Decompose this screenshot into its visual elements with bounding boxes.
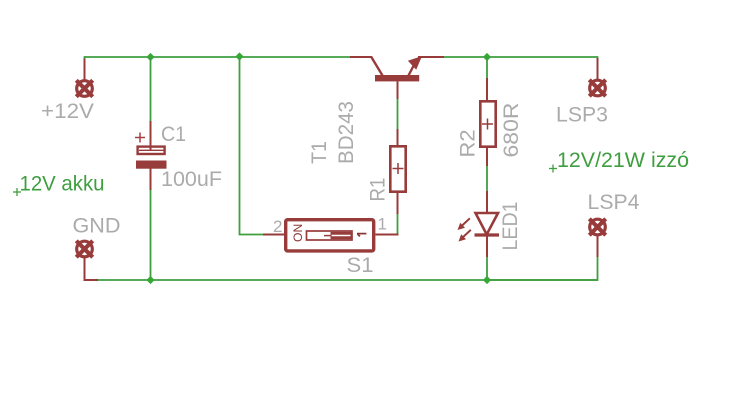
- switch S1 body: [286, 220, 374, 251]
- pin S1 pin1 stub: [376, 234, 399, 236]
- label 12V/21W izzo origin cross: [549, 165, 557, 173]
- svg-text:LSP3: LSP3: [556, 103, 608, 127]
- switch S1 actuator slot: [332, 235, 351, 237]
- capacitor C1 bottom plate: [136, 161, 167, 169]
- svg-text:GND: GND: [73, 214, 121, 238]
- svg-text:1: 1: [378, 215, 387, 234]
- svg-text:R1: R1: [366, 178, 390, 202]
- transistor T1 emitter pin: [418, 56, 444, 58]
- wire R2 to LED1: [486, 166, 488, 191]
- capacitor C1 plus mark: [135, 133, 145, 143]
- svg-text:BD243: BD243: [334, 101, 358, 164]
- wire LED1 to bottom rail: [486, 257, 488, 280]
- capacitor C1 top plate: [138, 147, 165, 154]
- solder pad LSP4: [589, 219, 605, 235]
- wire R2 top: [486, 57, 488, 78]
- origin cross R1: [393, 163, 404, 174]
- wire base to R1: [397, 99, 399, 129]
- node junction C1/bottom: [146, 276, 154, 284]
- wire top rail right (T1 emitter to LSP3 corner): [444, 57, 598, 59]
- wire bottom rail: [98, 279, 598, 281]
- LED1 triangle: [476, 213, 499, 235]
- svg-text:12V akku: 12V akku: [20, 172, 105, 196]
- solder pad LSP3: [589, 80, 605, 96]
- wire C1 bottom: [150, 190, 152, 280]
- switch S1 actuator block: [331, 232, 352, 239]
- pin R1 bottom: [397, 192, 399, 214]
- transistor T1 collector pin: [350, 56, 372, 58]
- pin S1 pin2 stub: [263, 234, 285, 236]
- pin R1 top: [397, 129, 399, 146]
- transistor T1 emitter arrow: [408, 56, 422, 70]
- wire C1 top: [150, 57, 152, 121]
- wire S1 branch vertical: [240, 57, 264, 235]
- transistor T1 emitter diagonal: [409, 61, 417, 76]
- solder pad GND: [76, 241, 92, 257]
- pin C1 bottom: [150, 169, 152, 191]
- transistor T1 collector diagonal: [371, 57, 383, 76]
- svg-text:680R: 680R: [499, 103, 523, 158]
- origin cross R2: [482, 119, 493, 130]
- label 12V akku origin cross: [13, 188, 21, 196]
- node junction S1 branch/top: [235, 52, 243, 60]
- wire R1 to S1 corner: [397, 214, 399, 234]
- pin LSP4: [597, 236, 599, 257]
- resistor R2: [480, 101, 495, 146]
- LED1 cathode bar: [475, 233, 500, 236]
- LED1 light arrow upper: [458, 218, 470, 230]
- pin C1 top: [150, 121, 152, 151]
- pin R2 bottom: [486, 147, 488, 166]
- svg-text:2: 2: [273, 217, 282, 236]
- svg-text:S1: S1: [347, 253, 374, 277]
- svg-text:LSP4: LSP4: [588, 190, 640, 214]
- wire +12V stub: [84, 56, 86, 58]
- pin T1 base: [397, 81, 399, 99]
- svg-text:12V/21W izzó: 12V/21W izzó: [557, 148, 689, 172]
- transistor T1 base bar: [375, 75, 419, 81]
- pin of +12V pad: [84, 59, 86, 81]
- pin LED1 anode: [486, 191, 488, 214]
- solder pad +12V: [76, 80, 92, 96]
- pin GND: [85, 258, 99, 280]
- pin LSP3: [597, 58, 599, 80]
- capacitor C1 top plate mid line: [139, 149, 164, 151]
- node junction LED/bottom: [483, 276, 491, 284]
- switch S1 lever line: [324, 235, 331, 237]
- node junction R2/top: [483, 53, 491, 61]
- svg-text:100uF: 100uF: [161, 167, 222, 191]
- pin R2 top: [486, 78, 488, 101]
- wire top rail left (+12V to T1 collector): [84, 56, 350, 58]
- svg-text:T1: T1: [307, 141, 331, 164]
- svg-text:ON: ON: [291, 224, 305, 242]
- switch S1 position 1 marking: [357, 234, 366, 237]
- svg-text:R2: R2: [456, 130, 480, 158]
- switch S1 slider outline: [307, 231, 353, 240]
- LED1 light arrow lower: [459, 230, 471, 242]
- svg-text:C1: C1: [161, 122, 186, 146]
- wire LSP4 to bottom rail: [487, 257, 598, 280]
- resistor R1: [390, 146, 405, 191]
- svg-text:LED1: LED1: [498, 202, 522, 251]
- pin LED1 cathode: [486, 236, 488, 257]
- svg-text:+12V: +12V: [41, 99, 95, 123]
- node junction C1/top: [146, 53, 154, 61]
